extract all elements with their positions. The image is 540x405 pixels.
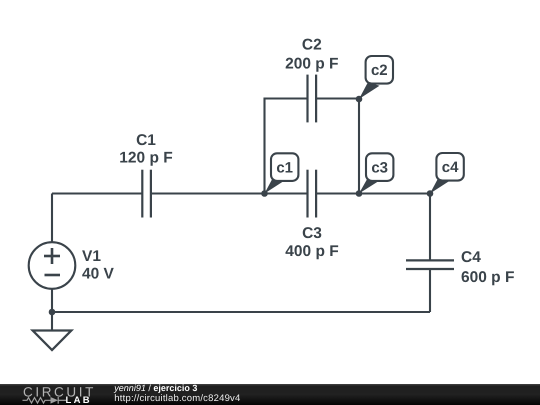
node junction dot c3	[356, 190, 363, 197]
node c4 callout	[430, 153, 464, 194]
svg-text:C4: C4	[461, 249, 481, 266]
wire: left vertical from middle net down to V1	[51, 194, 53, 243]
capacitor C2	[308, 75, 317, 123]
wire: C4 branch vertical bottom segment	[429, 269, 431, 312]
CircuitLab logo: resistor zigzag and diode	[23, 397, 67, 404]
svg-text:c1: c1	[276, 159, 293, 176]
node junction dot c4	[427, 190, 434, 197]
svg-text:600 p F: 600 p F	[461, 269, 514, 286]
wire: C2 right plate to c2 corner down to c3 junction	[317, 99, 359, 194]
wire: V1 bottom to ground junction and ground symbol	[51, 289, 53, 331]
ground	[33, 331, 72, 351]
svg-text:yenni91 / ejercicio 3: yenni91 / ejercicio 3	[113, 383, 197, 393]
svg-text:400 p F: 400 p F	[285, 243, 338, 260]
capacitor C1	[142, 170, 151, 218]
svg-text:c4: c4	[442, 159, 459, 176]
svg-text:C3: C3	[302, 225, 322, 242]
svg-text:c2: c2	[371, 62, 388, 79]
wire: main middle net from V1 top corner to C1 left plate	[52, 192, 142, 194]
node junction dot ground	[49, 309, 56, 316]
wire: C1 right plate to C3 left plate	[152, 192, 307, 194]
footer bar	[0, 384, 540, 405]
svg-text:LAB: LAB	[66, 395, 92, 405]
svg-text:V1: V1	[82, 248, 101, 265]
svg-text:200 p F: 200 p F	[285, 56, 338, 73]
node c2 callout	[359, 56, 393, 99]
node junction dot c1	[261, 190, 268, 197]
capacitor C4	[406, 260, 454, 269]
wire: C2 loop left vertical and top to C2 left plate	[265, 99, 307, 194]
capacitor C3	[308, 170, 317, 218]
svg-text:40 V: 40 V	[82, 266, 115, 283]
svg-text:C1: C1	[136, 132, 156, 149]
node c1 callout	[265, 153, 299, 193]
voltage source V1	[29, 242, 76, 289]
svg-text:c3: c3	[371, 159, 388, 176]
svg-text:C2: C2	[302, 36, 322, 53]
wire: C4 branch vertical top segment	[429, 194, 431, 261]
wire: C3 right plate to C4 branch corner	[317, 192, 430, 194]
wire: bottom net from ground junction to C4 bottom	[52, 311, 430, 313]
svg-text:120 p F: 120 p F	[119, 150, 172, 167]
node c3 callout	[359, 153, 393, 193]
svg-text:http://circuitlab.com/c8249v4: http://circuitlab.com/c8249v4	[114, 393, 240, 404]
node junction dot c2	[356, 96, 363, 103]
